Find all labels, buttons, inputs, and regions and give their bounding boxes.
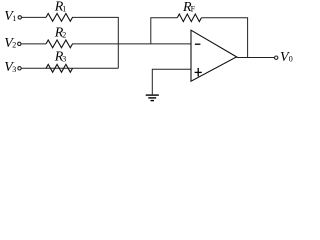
svg-text:2: 2 — [62, 30, 66, 39]
svg-text:0: 0 — [289, 55, 293, 64]
svg-text:3: 3 — [12, 65, 16, 74]
svg-text:2: 2 — [12, 41, 16, 50]
svg-text:1: 1 — [12, 14, 16, 23]
svg-text:3: 3 — [62, 54, 66, 63]
svg-text:F: F — [191, 5, 196, 14]
svg-text:1: 1 — [62, 4, 66, 13]
